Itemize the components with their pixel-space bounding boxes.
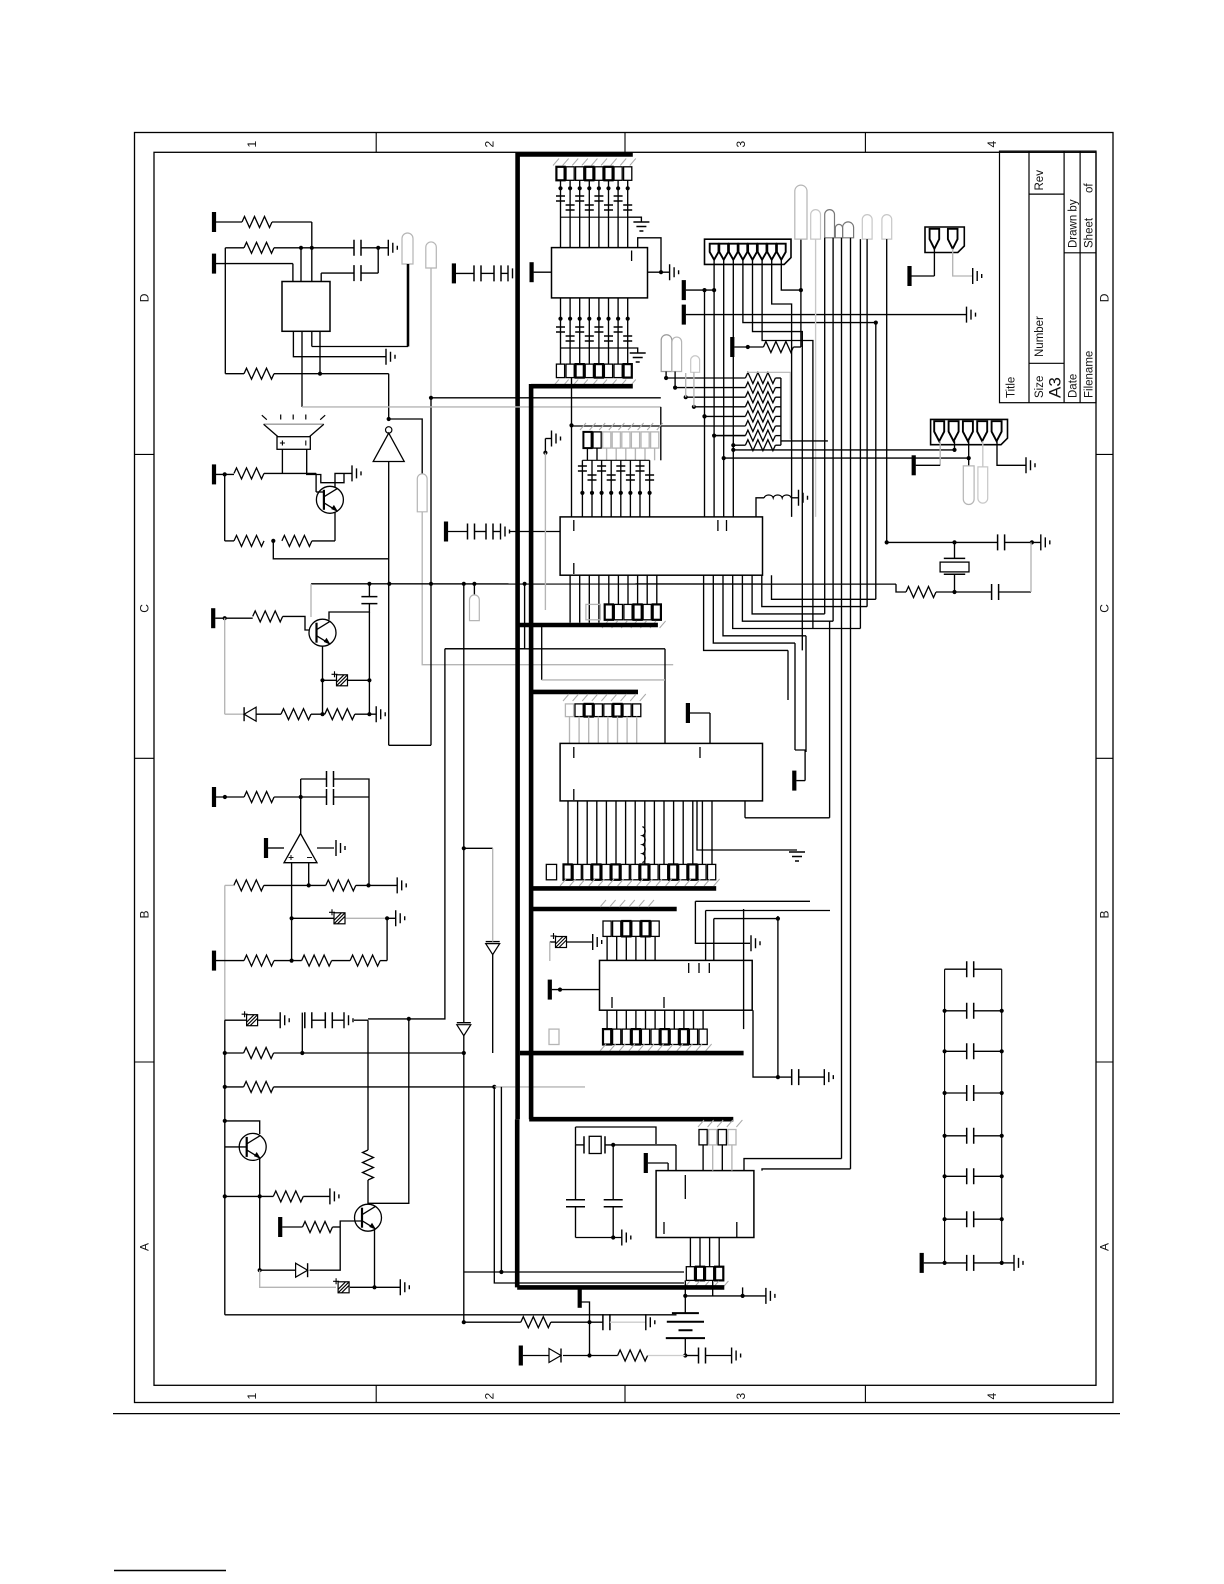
hatch marks bbox=[600, 1044, 712, 1051]
wire bbox=[605, 1144, 676, 1146]
pin wire bbox=[596, 448, 598, 460]
wire bbox=[224, 1020, 226, 1087]
resistor bbox=[244, 1081, 274, 1092]
wire bbox=[712, 1280, 714, 1296]
wire bbox=[954, 574, 956, 592]
connector pin pad bbox=[564, 864, 572, 879]
wire bbox=[552, 989, 600, 991]
wire bbox=[355, 713, 376, 715]
hatch marks bbox=[698, 1120, 742, 1127]
svg-text:Drawn by: Drawn by bbox=[1068, 199, 1080, 248]
pin wire bbox=[645, 936, 647, 960]
wire bbox=[936, 591, 992, 593]
zone tick marks bottom bbox=[376, 1385, 865, 1402]
pin wire bbox=[610, 460, 612, 517]
junction bbox=[429, 396, 433, 400]
wire bbox=[368, 680, 370, 714]
wire bbox=[368, 612, 370, 680]
bus wire bbox=[531, 384, 633, 389]
wire bbox=[666, 377, 745, 379]
junction bbox=[543, 451, 547, 455]
connector pin pad bbox=[613, 921, 621, 936]
connector pin pad bbox=[670, 1029, 678, 1044]
power port bbox=[444, 522, 448, 542]
capacitor bbox=[327, 789, 334, 805]
ground bbox=[973, 268, 982, 284]
connector pin pad bbox=[622, 921, 630, 936]
wire bbox=[380, 960, 387, 962]
svg-text:A: A bbox=[138, 1243, 152, 1251]
resistor bbox=[281, 709, 311, 720]
bus fan wire bbox=[704, 575, 788, 650]
wire bbox=[576, 1127, 657, 1144]
junction bbox=[578, 317, 582, 321]
wire bbox=[714, 435, 745, 437]
connector pin pad bbox=[576, 364, 584, 378]
ground bbox=[646, 1314, 655, 1330]
capacitor bbox=[354, 265, 361, 281]
wire bbox=[945, 1050, 967, 1052]
junction bbox=[367, 582, 371, 586]
power port bbox=[682, 280, 686, 300]
wire bbox=[684, 1296, 686, 1313]
power port bbox=[278, 1217, 282, 1237]
connector pin pad bbox=[592, 864, 600, 879]
capacitor bbox=[967, 1211, 974, 1227]
pin wire bbox=[627, 298, 629, 364]
svg-text:A: A bbox=[1098, 1243, 1112, 1251]
cap ladder right rail bbox=[1001, 969, 1003, 1263]
junction bbox=[300, 1051, 304, 1055]
inverter gate U8 bbox=[386, 427, 392, 433]
wire bbox=[686, 396, 746, 398]
connector pin bbox=[748, 244, 757, 260]
junction bbox=[1000, 1261, 1004, 1265]
sheet outer border bbox=[135, 133, 1114, 1403]
svg-text:Size: Size bbox=[1034, 376, 1046, 398]
pin wire bbox=[634, 448, 636, 460]
wire bbox=[389, 419, 423, 474]
wire bbox=[777, 916, 779, 1077]
pin wire bbox=[954, 441, 956, 450]
wire bbox=[794, 643, 796, 750]
wire bbox=[697, 801, 797, 850]
wire bbox=[333, 1226, 341, 1228]
pin wire bbox=[664, 1010, 666, 1029]
long wire bbox=[850, 238, 852, 1169]
connector pin pad bbox=[586, 604, 601, 619]
pin wire bbox=[577, 801, 579, 865]
transistor Q3 bbox=[239, 1133, 266, 1160]
pin wire bbox=[645, 1010, 647, 1029]
junction bbox=[722, 456, 726, 460]
connector pin pad bbox=[602, 864, 610, 879]
connector pin pad bbox=[696, 1267, 704, 1281]
test point bbox=[402, 233, 413, 264]
pin wire bbox=[608, 575, 610, 604]
connector pin pad bbox=[556, 167, 564, 181]
wire bbox=[361, 272, 378, 274]
pin wire bbox=[608, 180, 610, 247]
wire bbox=[258, 1019, 280, 1021]
connector pin pad bbox=[633, 704, 641, 717]
wire bbox=[224, 1196, 226, 1314]
capacitor bbox=[588, 475, 597, 480]
junction bbox=[776, 1075, 780, 1079]
wire bbox=[281, 449, 283, 473]
wire bbox=[684, 1280, 686, 1296]
wire bbox=[945, 1092, 967, 1094]
bus wire bbox=[519, 623, 658, 628]
ground bbox=[501, 524, 510, 540]
wire bbox=[334, 513, 336, 541]
wire bbox=[664, 649, 666, 744]
wire bbox=[575, 1207, 577, 1238]
pin wire bbox=[629, 460, 631, 517]
capacitor bbox=[578, 466, 587, 471]
pin wire bbox=[673, 801, 675, 865]
resistor bbox=[521, 1317, 551, 1328]
test point bbox=[825, 210, 835, 238]
wire bbox=[256, 713, 281, 715]
ground bbox=[633, 222, 649, 231]
wire bbox=[1002, 1262, 1014, 1264]
wire bbox=[317, 847, 334, 849]
resistor bbox=[242, 217, 272, 228]
pin wire bbox=[702, 1145, 704, 1171]
wire bbox=[945, 1135, 967, 1137]
junction bbox=[569, 423, 573, 427]
svg-text:1: 1 bbox=[245, 141, 259, 148]
junction bbox=[320, 712, 324, 716]
connector pin pad bbox=[660, 864, 668, 879]
connector pin pad bbox=[573, 864, 581, 879]
wire bbox=[315, 473, 317, 492]
power port bbox=[264, 838, 268, 858]
connector pin pad bbox=[604, 364, 612, 378]
power port bbox=[529, 262, 533, 282]
wire bbox=[648, 1355, 686, 1357]
wire bbox=[924, 1262, 945, 1264]
wire bbox=[272, 221, 312, 223]
wire bbox=[224, 474, 226, 541]
test point bbox=[691, 356, 700, 373]
wire bbox=[448, 531, 468, 533]
wire bbox=[974, 1092, 1002, 1094]
connector pin pad bbox=[661, 1029, 669, 1044]
junction bbox=[741, 1294, 745, 1298]
op-amp U2 bbox=[284, 834, 317, 863]
capacitor bbox=[967, 1085, 974, 1101]
connector pin pad bbox=[603, 1029, 611, 1044]
connector pin bbox=[949, 421, 959, 441]
pin wire bbox=[581, 460, 583, 517]
long wire bbox=[875, 323, 877, 600]
power port bbox=[212, 787, 216, 807]
capacitor bbox=[566, 1200, 585, 1207]
ground bbox=[824, 1069, 833, 1085]
wire bbox=[829, 621, 831, 818]
diode bbox=[486, 942, 500, 955]
connector pin pad bbox=[624, 604, 632, 619]
zone tick marks left bbox=[135, 454, 155, 1062]
wire bbox=[612, 1145, 614, 1200]
junction bbox=[578, 186, 582, 190]
resistor bbox=[253, 611, 283, 622]
wire bbox=[456, 272, 474, 274]
resistor bbox=[363, 1150, 374, 1180]
junction bbox=[367, 712, 371, 716]
wire bbox=[310, 1227, 341, 1270]
svg-text:Number: Number bbox=[1034, 316, 1046, 357]
wire bbox=[974, 1218, 1002, 1220]
svg-text:D: D bbox=[138, 293, 152, 302]
connector pin pad bbox=[643, 604, 651, 619]
resistor network element bbox=[745, 373, 775, 384]
wire bbox=[368, 797, 370, 885]
ground bbox=[670, 264, 679, 280]
junction bbox=[568, 317, 572, 321]
pin wire bbox=[653, 801, 655, 865]
pin wire bbox=[598, 180, 600, 247]
wire bbox=[534, 271, 552, 273]
power port bbox=[212, 212, 216, 232]
wire bbox=[225, 540, 234, 542]
connector pin pad bbox=[679, 864, 687, 879]
connector pin pad bbox=[651, 432, 659, 448]
bus wire bbox=[529, 1117, 733, 1122]
resistor network element bbox=[745, 430, 775, 441]
capacitor bbox=[556, 327, 565, 332]
junction bbox=[223, 472, 227, 476]
ground bbox=[593, 934, 602, 950]
junction bbox=[223, 795, 227, 799]
wire bbox=[388, 584, 390, 746]
wire bbox=[445, 584, 525, 649]
bus wire bbox=[531, 886, 716, 891]
junction bbox=[616, 317, 620, 321]
power port bbox=[682, 305, 686, 325]
svg-text:Title: Title bbox=[1006, 377, 1018, 398]
wire bbox=[628, 217, 642, 222]
pin wire bbox=[644, 448, 646, 460]
svg-text:Rev: Rev bbox=[1034, 170, 1046, 191]
wire bbox=[463, 1035, 465, 1272]
pin wire bbox=[718, 1238, 720, 1267]
bus fan wire bbox=[762, 575, 867, 606]
ground bbox=[799, 490, 808, 506]
wire bbox=[734, 346, 763, 348]
junction bbox=[1000, 1134, 1004, 1138]
pin wire bbox=[627, 180, 629, 247]
capacitor bbox=[494, 265, 501, 281]
resistor bbox=[234, 468, 264, 479]
bus wire bbox=[531, 690, 638, 695]
hatch marks bbox=[684, 1281, 728, 1288]
wire bbox=[334, 796, 370, 798]
junction bbox=[587, 1353, 591, 1357]
wire bbox=[744, 801, 746, 818]
resistor bbox=[244, 955, 274, 966]
capacitor bbox=[645, 475, 654, 480]
power port bbox=[519, 1346, 523, 1366]
wire bbox=[775, 387, 781, 389]
connector J2 body bbox=[925, 227, 964, 253]
ground bbox=[508, 265, 517, 281]
junction bbox=[499, 1270, 503, 1274]
junction bbox=[310, 246, 314, 250]
ground bbox=[400, 1279, 409, 1295]
capacitor bbox=[604, 336, 613, 341]
wire bbox=[224, 618, 226, 714]
connector pin pad bbox=[566, 167, 574, 181]
capacitor bbox=[967, 961, 974, 977]
svg-text:2: 2 bbox=[483, 1393, 497, 1400]
junction bbox=[385, 916, 389, 920]
pin wire bbox=[709, 1238, 711, 1267]
wire bbox=[945, 1262, 967, 1264]
wire bbox=[756, 498, 764, 517]
junction bbox=[628, 491, 632, 495]
wire bbox=[815, 239, 817, 517]
pin wire bbox=[625, 936, 627, 960]
wire bbox=[690, 712, 710, 714]
pin wire bbox=[635, 1010, 637, 1029]
long wire bbox=[841, 238, 843, 1159]
test point bbox=[835, 224, 842, 237]
pin 2 wire bbox=[723, 260, 725, 517]
IC U5 pin marks bbox=[574, 747, 700, 800]
wire bbox=[576, 1237, 622, 1239]
junction bbox=[318, 372, 322, 376]
pin wire bbox=[627, 575, 629, 604]
bus fan wire bbox=[723, 575, 806, 636]
wire bbox=[492, 954, 494, 1053]
connector pin pad bbox=[585, 167, 593, 181]
bus fan wire bbox=[752, 575, 825, 614]
zone tick marks top bbox=[376, 133, 865, 153]
connector pin pad bbox=[614, 364, 622, 378]
junction bbox=[1030, 540, 1034, 544]
wire bbox=[709, 713, 711, 743]
connector pin pad bbox=[585, 704, 593, 717]
pin wire bbox=[997, 441, 1026, 465]
capacitor bbox=[792, 1069, 799, 1085]
wire bbox=[796, 780, 805, 782]
junction bbox=[619, 491, 623, 495]
connector pin bbox=[738, 244, 747, 260]
wire bbox=[753, 1010, 778, 1077]
wire bbox=[685, 373, 687, 397]
wire bbox=[216, 221, 242, 223]
wire bbox=[523, 1355, 549, 1357]
junction bbox=[776, 917, 780, 921]
capacitor bbox=[325, 1012, 332, 1028]
long wire bbox=[886, 239, 888, 542]
resistor bbox=[244, 242, 274, 253]
wire bbox=[361, 247, 388, 249]
junction bbox=[223, 1194, 227, 1198]
junction bbox=[952, 590, 956, 594]
IC U1 top-left box bbox=[282, 282, 330, 332]
junction bbox=[1000, 1217, 1004, 1221]
connector pin pad bbox=[708, 864, 716, 879]
IC U6 pin marks bbox=[612, 963, 709, 1008]
pin wire bbox=[711, 801, 713, 865]
junction bbox=[387, 417, 391, 421]
diode D5 bbox=[549, 1349, 561, 1363]
power port bbox=[920, 1253, 924, 1273]
capacitor bbox=[607, 475, 616, 480]
connector pin pad bbox=[669, 864, 677, 879]
wire bbox=[335, 473, 352, 487]
wire bbox=[999, 591, 1031, 593]
pin wire bbox=[693, 1010, 695, 1029]
junction bbox=[290, 959, 294, 963]
wire bbox=[694, 406, 746, 408]
polarized capacitor bbox=[329, 909, 345, 924]
wire bbox=[312, 1019, 326, 1021]
junction bbox=[320, 678, 324, 682]
wire bbox=[1005, 541, 1041, 543]
junction bbox=[290, 916, 294, 920]
pin wire bbox=[721, 1145, 723, 1171]
wire bbox=[368, 1019, 409, 1203]
svg-text:Filename: Filename bbox=[1084, 351, 1096, 398]
junction bbox=[462, 846, 466, 850]
pin wire bbox=[606, 1010, 608, 1029]
IC U4 pin marks bbox=[574, 520, 727, 574]
cap array rail bbox=[561, 347, 628, 349]
ground bbox=[336, 840, 345, 856]
ground bbox=[622, 1230, 631, 1246]
hatch marks bbox=[600, 900, 654, 907]
pin wire bbox=[567, 801, 569, 865]
resistor bbox=[350, 955, 380, 966]
wire bbox=[648, 1162, 668, 1164]
wire bbox=[742, 1287, 744, 1296]
bus wire bbox=[517, 1285, 724, 1290]
connector pin bbox=[719, 244, 728, 260]
wire bbox=[320, 273, 322, 281]
pin wire bbox=[625, 801, 627, 865]
connector pin pad bbox=[631, 864, 639, 879]
connector pin pad bbox=[621, 864, 629, 879]
wire bbox=[282, 1226, 302, 1228]
wire bbox=[675, 1145, 677, 1171]
pin wire bbox=[586, 801, 588, 865]
connector pin pad bbox=[688, 864, 696, 879]
junction bbox=[611, 1235, 615, 1239]
pin wire bbox=[713, 919, 715, 961]
wire bbox=[954, 542, 956, 558]
connector pin bbox=[992, 421, 1002, 441]
capacitor bbox=[614, 196, 623, 201]
junction bbox=[702, 414, 706, 418]
capacitor bbox=[566, 205, 575, 210]
IC U4 main controller bbox=[560, 517, 762, 575]
pin wire bbox=[617, 298, 619, 364]
junction bbox=[590, 491, 594, 495]
wire bbox=[431, 397, 661, 399]
pin wire bbox=[617, 717, 619, 744]
power port bbox=[548, 980, 552, 1000]
capacitor bbox=[699, 1348, 706, 1364]
pin wire bbox=[637, 575, 639, 604]
connector pin pad bbox=[718, 1130, 726, 1145]
wire bbox=[389, 744, 431, 746]
connector pin pad bbox=[699, 1029, 707, 1044]
